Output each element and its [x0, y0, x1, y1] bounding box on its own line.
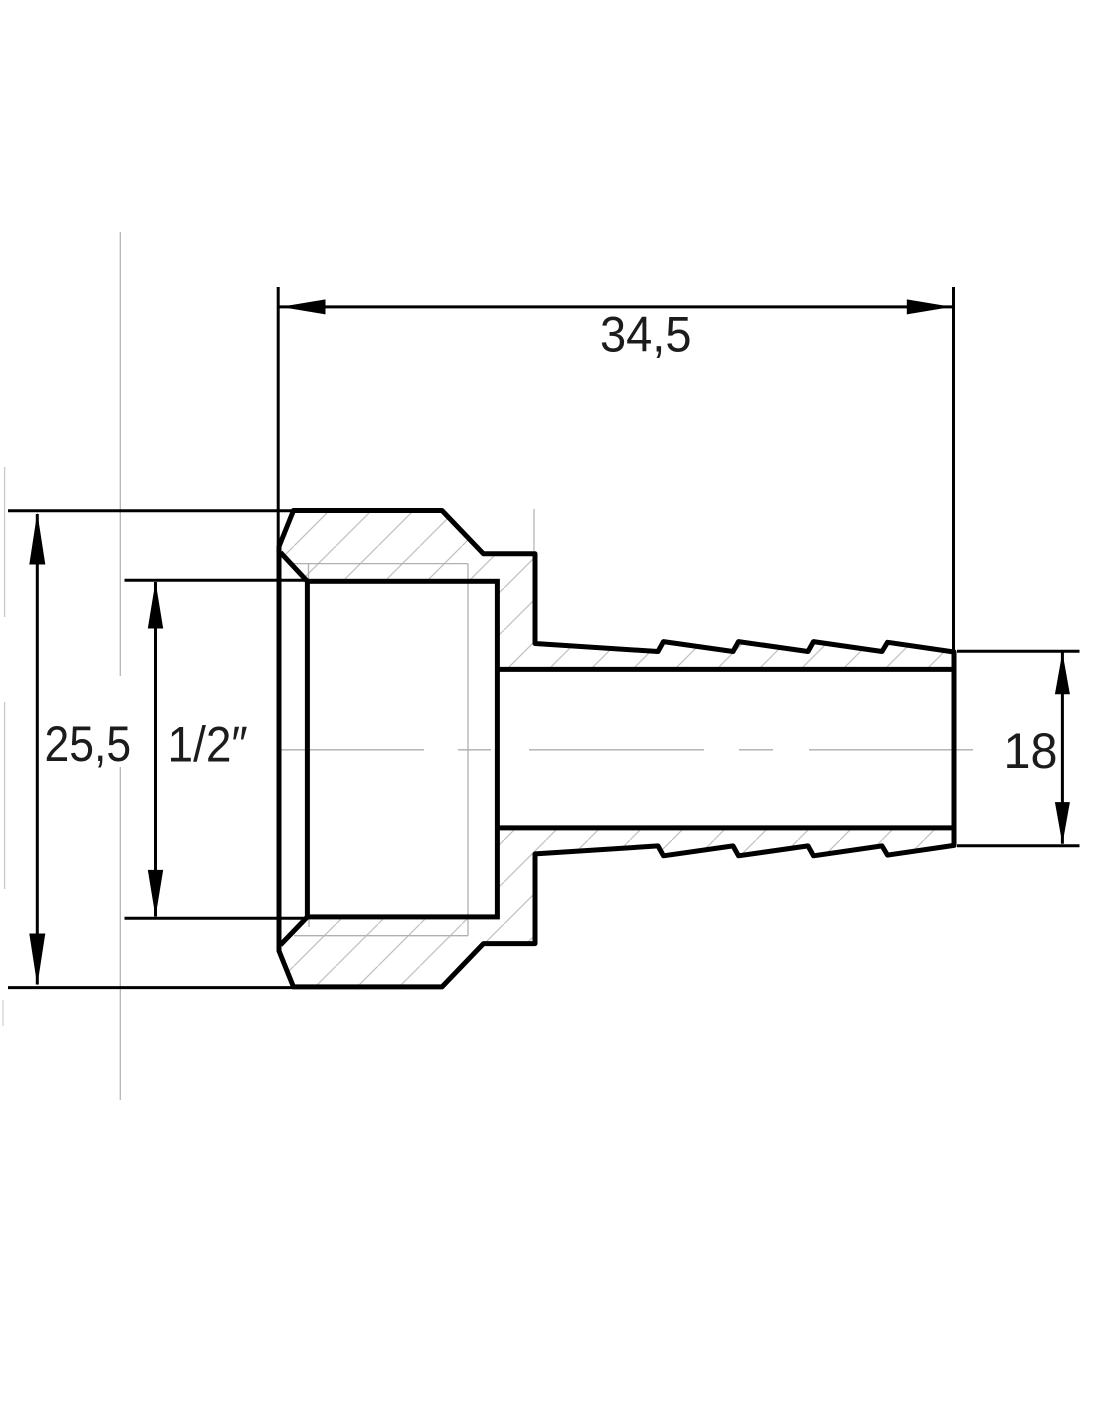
thin gray auxiliary vertical line left margin (upper) [4, 467, 6, 617]
dimension line 18 [1061, 653, 1064, 844]
hatched cross-section material [279, 511, 954, 987]
dimension line 1/2 [154, 582, 157, 917]
dimension line 34,5 [280, 305, 953, 308]
arrow 18 up [1055, 652, 1070, 694]
thread end line [467, 564, 469, 936]
extension line 18 bottom [957, 844, 1080, 847]
extension line 25,5 top [8, 509, 294, 512]
thin gray auxiliary stub bottom left [2, 1000, 4, 1026]
arrow 34,5 right [907, 299, 952, 314]
extension line 25,5 bottom [8, 986, 294, 989]
thin gray projection line x=120 lower [119, 767, 121, 1100]
arrow 18 down [1055, 802, 1070, 844]
thread bore rectangle [307, 581, 497, 917]
extension line 34,5 right [952, 287, 955, 652]
arrow 25,5 up [29, 513, 45, 565]
thin gray projection line above step [533, 509, 535, 551]
extension line 18 top [957, 650, 1080, 653]
thin gray auxiliary vertical line left margin (lower) [4, 702, 6, 889]
thread entry chamfer bottom [281, 917, 308, 945]
thread major diameter line top [294, 563, 468, 565]
thread major diameter line bottom [294, 935, 468, 937]
centerline dashes [281, 749, 973, 751]
svg-text:1/2″: 1/2″ [167, 718, 247, 773]
extension line 1/2 bottom [125, 917, 309, 920]
thin gray projection line x=120 upper [119, 232, 121, 676]
extension line 34,5 left [277, 287, 280, 546]
stem bore top line [497, 667, 954, 672]
svg-text:25,5: 25,5 [45, 717, 132, 773]
thread stub above bore [308, 564, 310, 581]
extension line 1/2 top [125, 579, 309, 582]
arrow 1/2 down [148, 870, 163, 917]
stem bore bottom line [497, 825, 954, 830]
arrow 1/2 up [148, 582, 163, 629]
part outline: hex head and hose barb [279, 511, 954, 987]
dimension line 25,5 [36, 514, 39, 985]
arrow 34,5 left [281, 299, 326, 314]
thread stub below bore [308, 918, 310, 927]
arrow 25,5 down [29, 934, 45, 986]
svg-text:34,5: 34,5 [600, 307, 691, 363]
svg-text:18: 18 [1004, 723, 1058, 779]
thread entry chamfer top [281, 553, 308, 582]
